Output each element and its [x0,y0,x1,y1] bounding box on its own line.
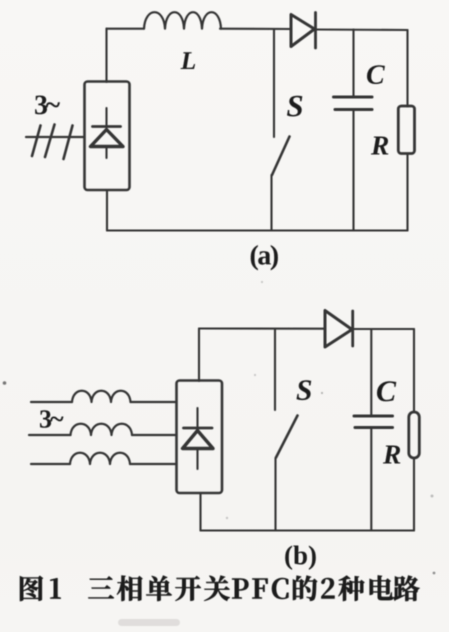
wire (b) top-left vertical [198,329,200,382]
inductor coil phase 1 (b) [72,391,131,402]
resistor R box (a) [398,106,414,154]
switch S label (b) [297,380,312,400]
capacitor C label (a) [367,65,385,84]
resistor R label (b) [383,446,400,464]
switch S blade (a) [272,137,290,176]
switch S lower branch (a) [270,175,272,231]
scan speck 4 [431,495,434,498]
inductor coil phase 3 (b) [70,453,130,464]
wire (a) top mid segment [220,28,291,30]
diode D1 triangle (a) [291,15,315,47]
caption 图1 [20,576,61,601]
label 3~ (a) [35,96,60,115]
label 3~ (b) [40,410,63,428]
scan speck 5 [226,517,228,519]
scan speck 2 [433,572,436,575]
three-phase line 2 wire right (b) [132,434,177,436]
bridge diode anode lead (b) [196,449,198,470]
resistor R label (a) [371,137,388,155]
wire (a) right upper [406,30,408,107]
wire (a) top left segment [107,28,145,30]
wire (a) bridge bottom stub [106,190,108,231]
scan speck 3 [321,392,323,394]
switch S upper branch (a) [273,29,275,137]
scan smudge artifact [118,619,180,626]
scan speck 1 [3,381,7,385]
wire (a) top right segment [316,28,408,31]
wire (a) right lower [406,154,408,231]
bridge diode cathode lead (a) [105,108,107,127]
three-phase line 2 wire left (b) [29,434,71,436]
switch S label (a) [287,96,302,117]
capacitor C bottom plate (b) [355,426,393,429]
caption 的2种电路 [293,576,420,601]
wire (b) right lower [413,458,415,531]
diode D2 triangle (b) [325,311,352,348]
three-phase slash 3 (a) [64,126,73,160]
three-phase slash 2 (a) [45,125,55,158]
bridge rectifier box (b) [177,381,223,494]
switch S upper branch (b) [274,329,276,410]
sub-label (a) [251,245,278,270]
resistor R box (b) [409,412,420,458]
wire (b) bridge bottom stub [199,493,201,531]
wire (a) top-left vertical [105,29,107,83]
inductor L coil (a) [144,12,221,29]
wire (b) top left segment [199,327,325,329]
capacitor C bottom plate (a) [335,108,372,111]
bridge diode anode lead (a) [105,147,107,159]
caption 三相单开关 [88,576,229,601]
bridge diode cathode bar (b) [184,427,213,430]
bridge diode triangle (a) [91,130,124,147]
three-phase slash 1 (a) [32,126,41,157]
three-phase line 1 wire right (b) [131,401,177,403]
inductor coil phase 2 (b) [71,424,133,435]
capacitor C upper branch (b) [370,329,372,416]
capacitor C top plate (b) [354,415,393,418]
scan speck 6 [254,374,256,376]
three-phase line 1 wire left (b) [31,401,72,403]
wire (b) right upper [413,329,415,412]
switch S lower branch (b) [274,458,276,531]
bridge diode triangle (b) [183,431,214,449]
capacitor C label (b) [377,381,396,401]
inductor L value label [181,52,196,69]
wire (a) bottom [107,229,408,231]
capacitor C upper branch (a) [352,30,354,98]
bridge rectifier box (a) [85,82,130,191]
bridge diode cathode lead (b) [196,408,198,428]
scan speck below (a) [261,281,263,283]
wire (b) bottom [201,529,415,531]
caption PFC [232,578,288,599]
diode D1 cathode bar (a) [314,13,317,49]
three-phase line 3 wire right (b) [130,463,177,465]
three-phase line 3 wire left (b) [31,463,70,465]
capacitor C lower branch (a) [352,110,354,231]
sub-label (b) [285,546,316,570]
capacitor C lower branch (b) [370,428,372,531]
switch S blade (b) [276,416,298,458]
diode D2 cathode bar (b) [351,311,354,346]
bridge diode cathode bar (a) [93,125,121,128]
capacitor C top plate (a) [334,96,373,99]
three-phase input wire (a) [26,136,84,138]
wire (b) top right segment [353,328,414,330]
